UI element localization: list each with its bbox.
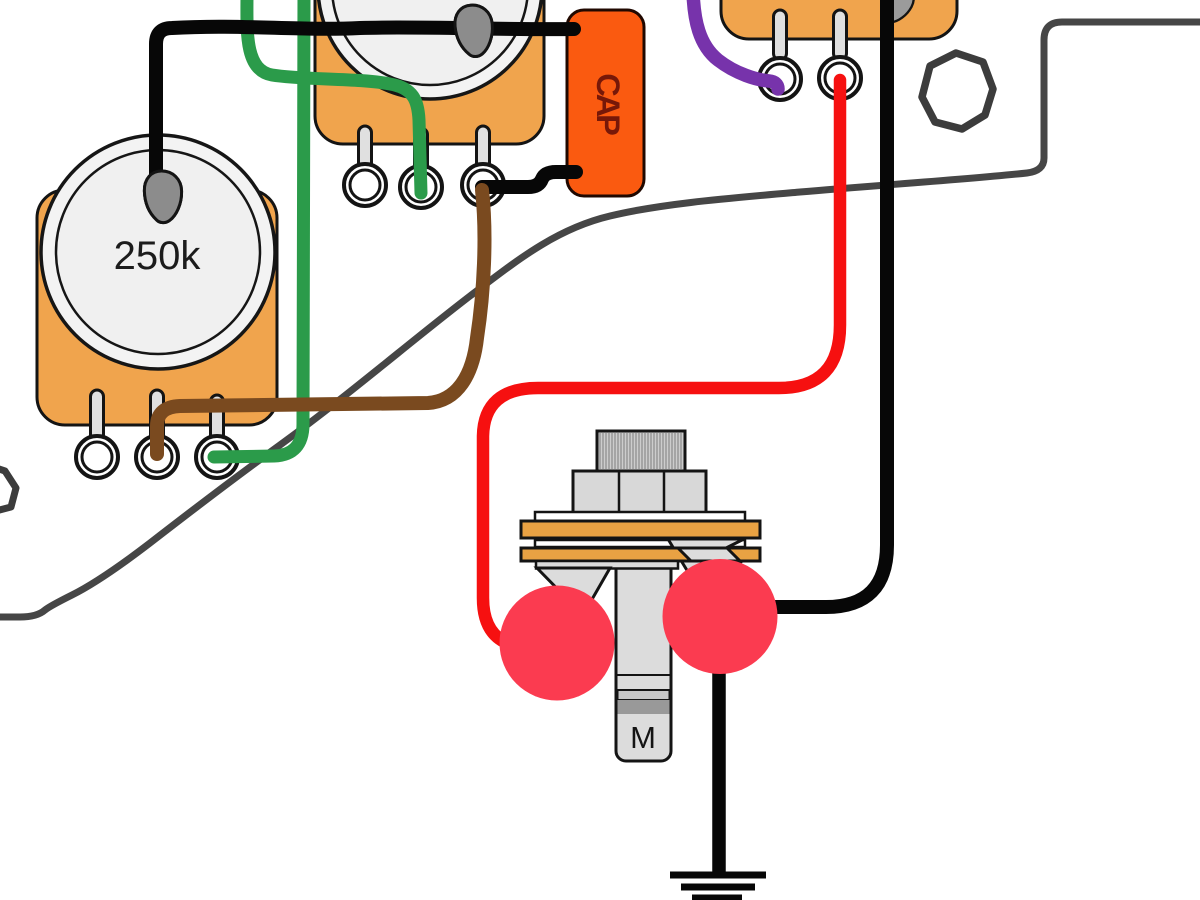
svg-text:M: M [630,720,656,755]
svg-text:250k: 250k [114,234,202,278]
svg-text:CAP: CAP [590,73,626,135]
